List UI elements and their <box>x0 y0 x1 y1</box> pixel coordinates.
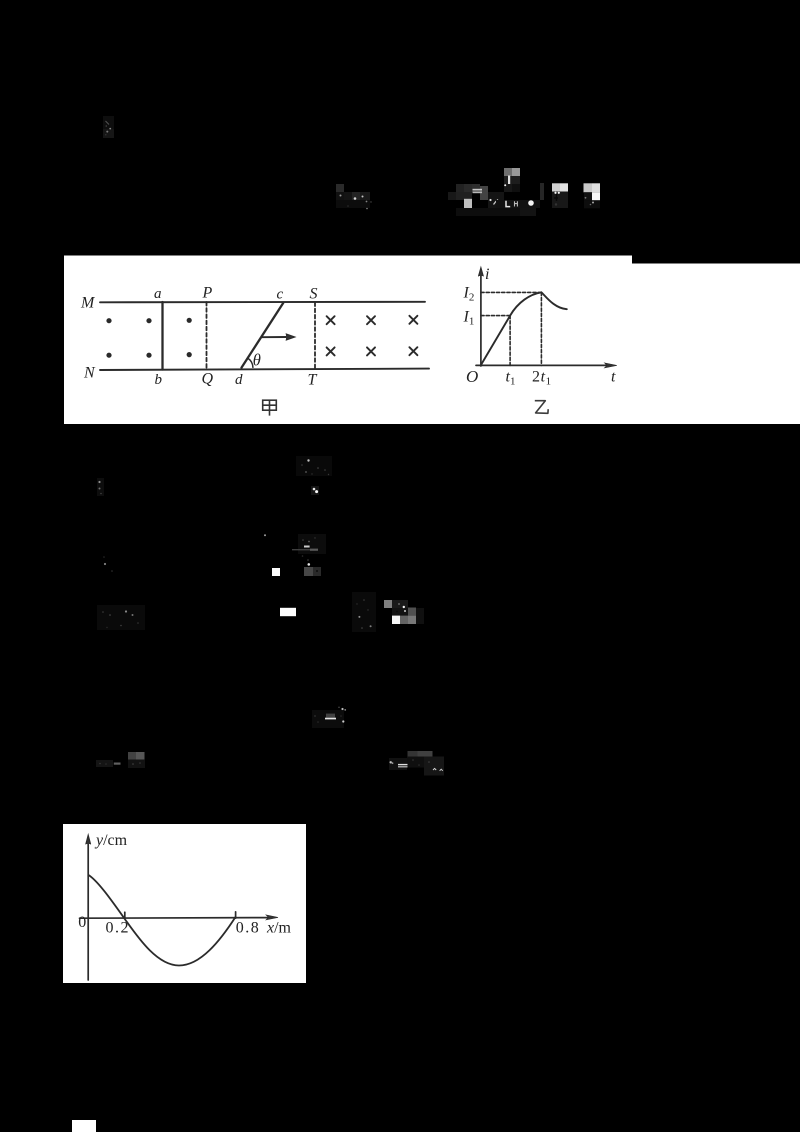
cluster near (104,118) <box>103 116 114 138</box>
field cross B-in row2 col3 <box>409 347 417 355</box>
field dot B-out row1 col1 <box>106 318 111 323</box>
dashed I2 <box>481 291 542 293</box>
field crosses (into page) <box>327 316 418 356</box>
乙 caption <box>535 401 548 414</box>
cluster near (300,536)-(325,575) <box>272 534 326 576</box>
cluster near (297,456) <box>296 456 332 495</box>
faint jpeg-noise fragments on black <box>96 116 600 776</box>
wave curve <box>89 875 236 966</box>
svg-text:b: b <box>155 372 163 388</box>
cluster near (384,600) <box>384 600 424 624</box>
dashed I1 <box>481 315 510 317</box>
field dot B-out row2 col1 <box>106 353 111 358</box>
甲 caption <box>263 400 277 415</box>
cluster near (456,168)-(540,216) <box>448 168 540 216</box>
labels fig1 <box>80 285 318 389</box>
rail N <box>100 369 429 370</box>
cluster near (97,477) <box>97 478 104 496</box>
i axis arrow head <box>479 268 484 277</box>
svg-text:M: M <box>80 295 96 312</box>
t axis arrow head <box>605 363 617 368</box>
x axis arrow head <box>266 915 278 920</box>
svg-text:c: c <box>277 287 284 303</box>
panel 1 white background <box>64 256 800 425</box>
field dot B-out row2 col2 <box>146 353 151 358</box>
svg-text:0.8: 0.8 <box>236 919 260 936</box>
rod cd <box>242 303 284 368</box>
svg-text:θ: θ <box>253 351 261 370</box>
svg-text:O: O <box>466 367 478 386</box>
dashed t1 <box>509 316 511 366</box>
cluster near (352,592) <box>352 592 376 632</box>
field cross B-in row2 col1 <box>327 347 335 355</box>
svg-text:0: 0 <box>78 914 86 931</box>
rail M <box>100 301 425 304</box>
svg-text:Q: Q <box>202 370 214 387</box>
cluster near (97,605) <box>97 605 145 630</box>
speck (265,535) and cluster near (105,564) <box>103 534 266 572</box>
graph 乙 <box>476 268 617 368</box>
svg-text:N: N <box>83 365 96 382</box>
x axis <box>80 917 270 920</box>
labels fig2 <box>463 266 617 388</box>
svg-text:x/m: x/m <box>266 919 292 936</box>
svg-text:a: a <box>154 286 162 302</box>
field dot B-out row1 col2 <box>146 318 151 323</box>
white block (280,608) <box>280 608 296 616</box>
svg-text:T: T <box>308 372 318 389</box>
svg-text:t: t <box>611 369 616 386</box>
field dots (out of page) <box>106 318 191 358</box>
y axis arrow head <box>86 835 91 844</box>
svg-text:S: S <box>310 286 318 303</box>
rod ab <box>161 302 163 370</box>
field dot B-out row2 col3 <box>187 352 192 357</box>
svg-text:y/cm: y/cm <box>94 832 128 849</box>
panel 2 white background <box>63 824 306 983</box>
tick 0.2 <box>124 912 126 918</box>
svg-text:i: i <box>485 266 489 283</box>
i axis <box>480 270 482 366</box>
cluster near (96,752) <box>96 752 145 768</box>
labels fig3 <box>78 832 291 937</box>
wave figure <box>80 835 279 980</box>
dashed line ST <box>314 303 316 369</box>
bottom-left white block <box>72 1120 96 1132</box>
field dot B-out row1 col3 <box>187 318 192 323</box>
field cross B-in row1 col2 <box>367 316 375 324</box>
svg-text:P: P <box>202 285 213 302</box>
t axis <box>476 364 608 366</box>
cluster near (312,702) t= fraction <box>312 707 346 729</box>
y axis <box>87 839 89 980</box>
svg-text:d: d <box>235 372 243 388</box>
cluster near (552,183) <box>540 183 600 208</box>
velocity arrow head <box>286 334 295 340</box>
field cross B-in row1 col3 <box>409 316 417 324</box>
velocity arrow shaft <box>262 336 287 338</box>
field cross B-in row2 col2 <box>367 347 375 355</box>
dashed line PQ <box>206 302 208 369</box>
dashed 2t1 <box>540 292 542 365</box>
svg-text:0.2: 0.2 <box>106 920 131 937</box>
current curve <box>481 292 567 365</box>
cluster near (390,751) <box>389 751 444 776</box>
cluster near (336,184) <box>336 184 372 209</box>
angle arc at d <box>248 358 253 367</box>
tick 0.8 <box>235 912 237 918</box>
field cross B-in row1 col1 <box>327 316 335 324</box>
